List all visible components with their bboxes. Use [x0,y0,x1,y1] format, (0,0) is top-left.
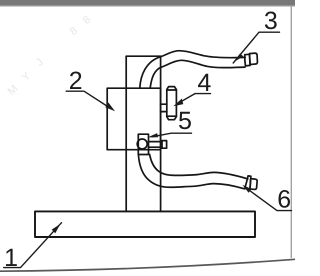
hose 3 upper line [140,51,245,88]
hose 3 end cap [245,53,258,66]
label 3 text [265,12,277,30]
label 4 leader [178,94,211,104]
clamp 5 bolt bar [149,142,163,148]
clamp 5 circle [137,139,147,149]
page bottom edge line [0,259,295,271]
scanner top bar [0,0,295,6]
clamp 5 bolt head [162,141,167,149]
cylinder 4 bottom inner line [167,115,177,117]
label 5 text [179,112,191,129]
column right edge [160,56,162,211]
label 3 leader [233,32,279,63]
cylinder (part 4) [167,87,177,120]
column top edge [126,55,160,57]
hose 3 lower line [150,60,245,88]
label 1 text [6,249,17,266]
base plate (part 1) [35,211,255,237]
tab between column and cylinder 4 [161,104,167,111]
label 2 leader [66,91,110,108]
hose 6 inner line [150,154,248,179]
arrowhead 6 [242,185,251,193]
arrowhead 1 [52,224,61,233]
cylinder 4 top inner line [167,89,177,91]
label 5 leader [152,133,192,137]
labels and leaders [4,32,292,267]
label 1 leader [4,223,62,268]
page right edge line [290,6,292,258]
box (part 2) [107,88,160,150]
label 2 text [70,72,81,90]
arrowhead 4 [173,99,183,107]
arrowhead 3 [234,53,243,61]
label 6 text [279,190,291,208]
column left edge [125,56,127,211]
hose 6 end cap [245,176,258,190]
hose 6 outer line [138,154,244,188]
label 4 text [198,74,211,91]
faint watermark letters [6,14,94,98]
clamp (part 5) body [138,134,148,154]
label 6 leader [250,191,292,211]
arrowhead 5 [148,133,158,137]
arrowhead 2 [105,103,115,112]
